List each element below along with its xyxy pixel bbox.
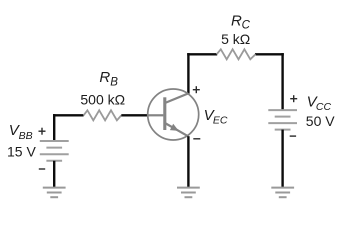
resistor RB zigzag [84,110,122,120]
transistor Q1 base bar [163,97,166,130]
svg-text:BB: BB [19,130,33,142]
svg-text:R: R [231,12,242,29]
svg-text:C: C [242,20,251,32]
plus sign VBB [39,128,46,135]
wire emitter vertical [187,136,189,187]
transistor Q1 base lead inside [148,114,164,116]
wire top rail right segment [255,53,284,55]
minus sign VBB [39,168,45,170]
minus sign emitter [193,138,200,140]
label VCC [307,93,332,113]
minus sign VCC [290,135,296,137]
svg-text:B: B [110,76,118,88]
resistor RC zigzag [217,49,256,59]
ground under VCC [271,188,294,198]
transistor Q1 emitter diagonal [165,123,189,136]
wire collector vertical [187,53,189,94]
label RC [231,12,251,31]
label VEC [204,107,228,126]
plus sign VCC [290,95,297,102]
svg-text:500 kΩ: 500 kΩ [80,91,125,107]
transistor Q1 circle [148,89,199,140]
svg-text:50 V: 50 V [306,113,335,129]
wire Vcc bottom vertical [281,130,283,188]
label RB [99,69,118,88]
battery VCC [268,110,297,130]
svg-text:EC: EC [213,114,228,126]
wire VBB bottom vertical [53,161,55,188]
label VBB [9,122,33,142]
svg-text:5 kΩ: 5 kΩ [221,31,250,47]
plus sign collector [193,86,200,93]
svg-text:CC: CC [316,101,332,113]
wire top rail left segment [187,53,217,55]
transistor Q1 collector diagonal [165,93,189,103]
transistor Q1 emitter arrowhead [170,124,179,131]
wire Vcc top vertical [281,53,283,110]
ground under VBB [43,188,66,198]
wire base rail right [121,114,148,116]
ground under emitter [177,188,200,198]
svg-text:15 V: 15 V [7,143,36,159]
svg-text:R: R [99,69,110,86]
wire VBB drop [53,114,55,141]
wire base rail left [53,114,84,116]
battery VBB [40,141,69,161]
